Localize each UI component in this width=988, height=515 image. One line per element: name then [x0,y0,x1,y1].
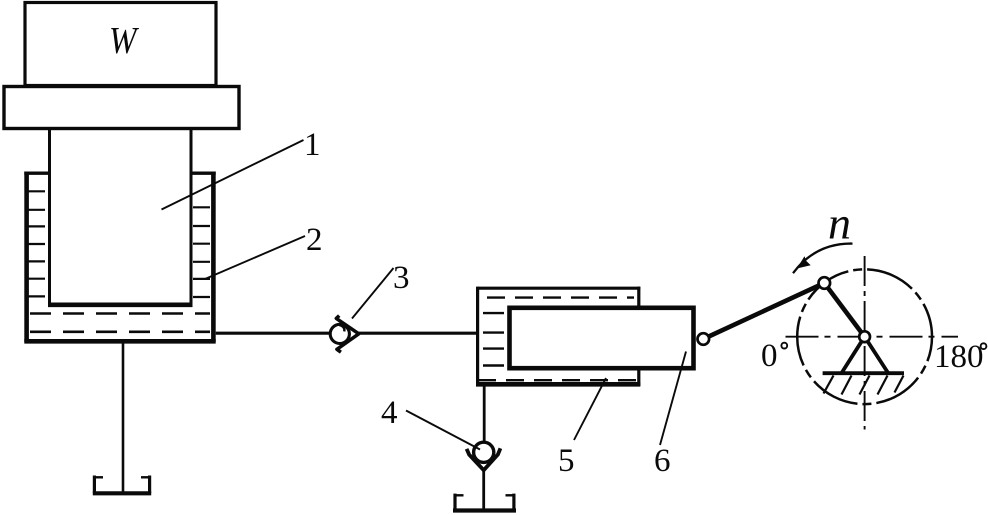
svg-text:5: 5 [558,443,575,479]
check valve 4 ball [474,442,494,462]
cylinder 2 left wall [24,172,29,343]
leader line 4 [406,411,480,450]
tank T1 [93,476,151,494]
check valve 3 ball [330,324,349,343]
leader line 6 [660,352,686,446]
pipe cylinder5 to valve4 [483,385,486,442]
center pivot pin [859,331,870,342]
liquid dashes cylinder 5 bottom [478,379,638,381]
vertical centerline [864,256,866,430]
main pipe valve3 to cylinder5 [358,332,479,335]
rotation arrow arc [793,244,853,274]
support legs [842,337,888,373]
svg-text:2: 2 [306,222,323,258]
cylinder 2 right wall top cap [191,171,216,174]
check valve 3 seat [336,316,359,353]
load W block [25,3,216,86]
liquid dashed level line lower in cylinder 2 [30,330,210,333]
liquid ticks left wall [28,191,45,296]
piston pin [698,333,710,345]
cylinder 2 right wall [211,172,216,343]
drain pipe from cylinder 2 [122,343,125,492]
rotation arrow head [797,256,811,268]
svg-text:6: 6 [654,443,671,479]
crank pin [819,277,831,289]
svg-text:4: 4 [381,395,398,431]
platen [4,87,239,129]
tank T2 [453,494,516,511]
piston 1 (ram) [48,129,51,307]
horizontal centerline [786,336,959,338]
ground hatching [824,376,904,395]
crank circle dashed [797,269,932,404]
svg-text:3: 3 [393,260,410,296]
crank arm [824,283,864,337]
ground line [823,371,904,375]
svg-text:0: 0 [761,338,778,374]
svg-text:n: n [828,198,851,249]
check valve 4 seat [467,448,501,470]
connecting rod [703,283,824,339]
piston 6 [510,308,694,368]
check valve 3 ball inner curl [339,325,344,332]
liquid ticks right wall [193,207,210,297]
main pipe cylinder2 to valve3 [216,332,330,335]
leader line 3 [352,268,394,319]
liquid ticks cylinder 5 left [483,313,504,365]
svg-text:W: W [109,20,139,62]
liquid dashes cylinder 5 top [487,296,634,298]
liquid dashed level line upper in cylinder 2 [30,312,210,315]
leader line 1 [162,140,304,210]
svg-text:180: 180 [934,339,984,375]
cylinder 2 bottom [24,339,215,344]
pipe valve4 to tank T2 [482,470,485,509]
cylinder 5 body [476,287,640,386]
leader line 2 [205,236,305,279]
leader line 5 [574,378,606,440]
cylinder 2 left wall top cap [24,171,49,174]
svg-text:1: 1 [304,127,321,163]
